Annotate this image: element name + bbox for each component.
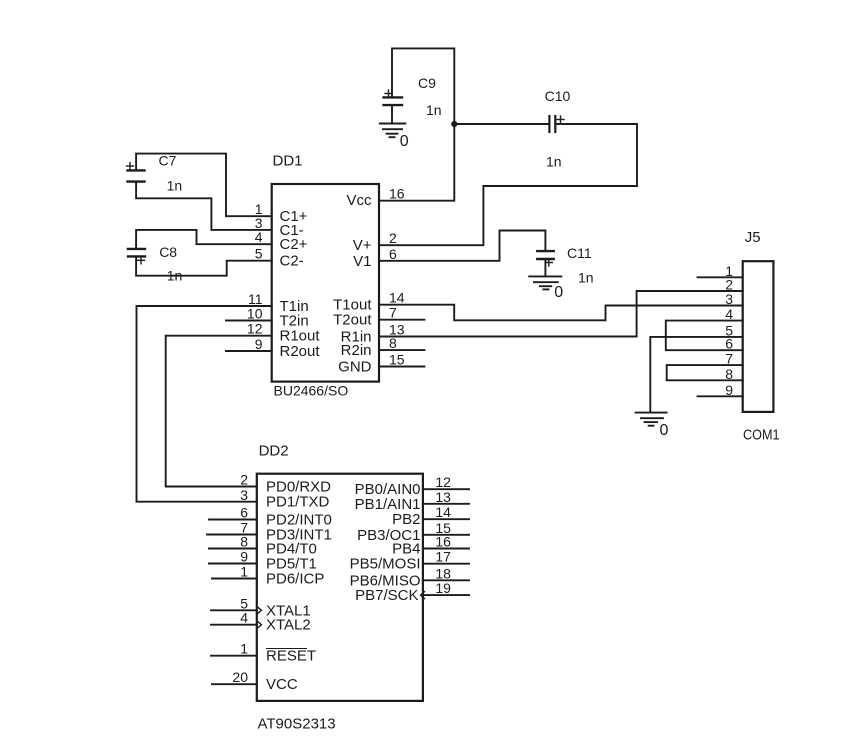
wire stub DD2 pin7 PD3/INT1: [207, 534, 257, 536]
svg-text:8: 8: [240, 534, 248, 550]
svg-text:18: 18: [435, 565, 451, 581]
capacitor C7: [127, 163, 145, 182]
wire C9 top plate up and over to Vcc node vertical: [379, 48, 454, 200]
capacitor C9: [384, 90, 403, 105]
svg-text:PD1/TXD: PD1/TXD: [266, 494, 330, 511]
svg-text:1n: 1n: [578, 270, 594, 286]
svg-text:AT90S2313: AT90S2313: [258, 716, 336, 733]
svg-text:C2-: C2-: [280, 253, 304, 270]
wire stub DD2 pin16 PB4: [423, 548, 469, 550]
wire stub DD2 pin8 PD4/T0: [209, 548, 257, 550]
svg-text:4: 4: [725, 306, 733, 322]
wire stub DD2 pin5 XTAL1: [211, 609, 257, 611]
svg-text:13: 13: [435, 489, 451, 505]
svg-text:C7: C7: [159, 153, 177, 169]
wire DD1 pin11 T1in down to DD2 pin3 PD1/TXD: [137, 306, 272, 502]
svg-text:1: 1: [240, 564, 248, 580]
svg-text:6: 6: [240, 505, 248, 521]
wire stub DD2 pin18 PB6/MISO: [423, 579, 469, 581]
wire stub DD2 pin20 VCC: [212, 683, 257, 685]
wire junction to C10 left plate: [454, 123, 549, 125]
svg-text:V+: V+: [353, 237, 372, 254]
ground below C11: [529, 276, 561, 289]
svg-text:10: 10: [247, 306, 263, 322]
wire stub DD2 pin9 PD5/T1: [209, 563, 257, 565]
svg-text:BU2466/SO: BU2466/SO: [274, 383, 349, 399]
wire C8 bottom plate to DD1 pin5 C2-: [136, 256, 272, 275]
svg-text:19: 19: [435, 580, 451, 596]
capacitor C8: [128, 249, 145, 264]
svg-text:VCC: VCC: [266, 676, 298, 693]
svg-text:16: 16: [435, 534, 451, 550]
svg-text:2: 2: [240, 472, 248, 488]
svg-text:0: 0: [660, 422, 669, 439]
svg-text:PB2: PB2: [392, 511, 420, 528]
svg-text:C8: C8: [159, 244, 177, 260]
svg-text:8: 8: [389, 335, 397, 351]
svg-text:2: 2: [389, 230, 397, 246]
svg-text:20: 20: [232, 669, 248, 685]
connector J5 COM1 box: [743, 261, 774, 412]
svg-text:9: 9: [725, 382, 733, 398]
svg-text:8: 8: [725, 366, 733, 382]
wire DD1 pin12 R1out down to DD2 pin2 PD0/RXD: [166, 336, 272, 487]
arrowhead XTAL2: [257, 621, 261, 628]
arrowhead PB7/SCK: [421, 592, 425, 599]
svg-text:GND: GND: [338, 359, 372, 376]
svg-text:14: 14: [435, 504, 451, 520]
svg-text:V1: V1: [353, 253, 371, 270]
op-amp U1 : IC DD1 BU2466/SO box: [272, 184, 379, 382]
RESET overbar: [266, 648, 307, 650]
svg-text:3: 3: [240, 487, 248, 503]
wire C10 right plate to DD1 pin2 V+: [379, 124, 637, 245]
wire stub DD2 pin15 PB3/OC1: [423, 534, 469, 536]
svg-text:4: 4: [255, 229, 263, 245]
wire C7 top plate to DD1 pin1 C1+: [136, 154, 272, 217]
wire stub DD1 pin15 GND: [379, 366, 424, 368]
svg-text:C11: C11: [567, 245, 592, 261]
svg-text:16: 16: [389, 186, 405, 202]
wire stub DD2 pin17 PB5/MOSI: [423, 563, 469, 565]
svg-text:J5: J5: [745, 229, 761, 246]
svg-text:PB5/MOSI: PB5/MOSI: [350, 556, 421, 573]
svg-text:17: 17: [435, 549, 451, 565]
svg-text:1n: 1n: [167, 178, 183, 194]
svg-text:R2in: R2in: [341, 342, 372, 359]
wire J5 pin7 to pin8 jumper: [667, 365, 743, 380]
svg-text:12: 12: [435, 474, 451, 490]
svg-text:RESET: RESET: [266, 648, 316, 665]
svg-text:COM1: COM1: [743, 427, 780, 444]
svg-text:9: 9: [255, 336, 263, 352]
transistor Q0 : IC DD2 AT90S2313 box: [257, 474, 423, 701]
svg-text:C2+: C2+: [280, 236, 308, 253]
svg-text:6: 6: [725, 336, 733, 352]
svg-text:15: 15: [389, 352, 405, 368]
wire C9 bottom plate to ground: [391, 105, 393, 123]
arrowhead XTAL1: [257, 607, 261, 614]
wire stub DD1 pin10 T2in: [226, 320, 272, 322]
wire DD1 pin14 T1out to J5 pin3: [379, 305, 743, 321]
wire J5 pin5 to ground: [650, 337, 742, 413]
svg-text:DD1: DD1: [273, 153, 303, 170]
svg-text:DD2: DD2: [259, 442, 289, 459]
svg-text:9: 9: [240, 549, 248, 565]
svg-text:1n: 1n: [546, 154, 562, 170]
wire J5 pin4 to pin6 jumper: [666, 321, 743, 351]
svg-text:C10: C10: [545, 88, 571, 104]
wire stub DD2 pin13 PB1/AIN1: [423, 503, 469, 505]
svg-text:PD6/ICP: PD6/ICP: [266, 571, 324, 588]
svg-text:Vcc: Vcc: [346, 192, 372, 209]
wire stub DD2 pin1 PD6/ICP: [212, 578, 257, 580]
wire DD1 pin6 V1 to C11 top plate: [379, 231, 545, 261]
wire stub DD2 pin19 PB7/SCK: [423, 594, 469, 596]
wire stub DD2 pin14 PB2: [423, 518, 469, 520]
svg-text:PB7/SCK: PB7/SCK: [355, 587, 418, 604]
ground below J5 pin5: [636, 413, 667, 426]
svg-text:7: 7: [725, 351, 733, 367]
svg-text:6: 6: [389, 246, 397, 262]
wire stub DD2 pin6 PD2/INT0: [209, 519, 257, 521]
svg-text:1n: 1n: [426, 102, 442, 118]
svg-text:0: 0: [554, 284, 563, 301]
wire stub DD1 pin7 T2out: [379, 319, 424, 321]
wire stub DD1 pin9 R2out: [226, 350, 272, 352]
svg-text:7: 7: [389, 305, 397, 321]
svg-text:R2out: R2out: [280, 343, 321, 360]
wire stub DD2 pin12 PB0/AIN0: [423, 488, 469, 490]
wire DD1 pin13 R1in to J5 pin2: [379, 291, 743, 337]
svg-text:14: 14: [389, 290, 405, 306]
svg-text:3: 3: [725, 291, 733, 307]
wire stub DD2 RESET pin: [211, 655, 257, 657]
capacitor C10: [549, 116, 564, 132]
svg-text:0: 0: [400, 133, 409, 150]
svg-text:XTAL2: XTAL2: [266, 617, 311, 634]
svg-text:5: 5: [255, 246, 263, 262]
node A junction dot Vcc net: [451, 121, 457, 127]
ground below C9: [380, 124, 406, 138]
svg-text:T2out: T2out: [333, 312, 372, 329]
wire C8 top plate to DD1 pin4 C2+: [136, 230, 272, 249]
svg-text:12: 12: [247, 321, 263, 337]
wire C11 bottom plate to ground: [544, 259, 546, 276]
svg-text:4: 4: [240, 610, 248, 626]
svg-text:C9: C9: [418, 75, 436, 91]
wire stub DD1 pin8 R2in: [379, 349, 424, 351]
wire stub J5 pin1: [698, 276, 743, 278]
capacitor C11: [537, 251, 553, 266]
wire stub DD2 pin4 XTAL2: [211, 624, 257, 626]
wire C7 bottom plate to DD1 pin3 C1-: [136, 182, 272, 230]
svg-text:1: 1: [240, 641, 248, 657]
wire stub J5 pin9: [698, 395, 743, 397]
